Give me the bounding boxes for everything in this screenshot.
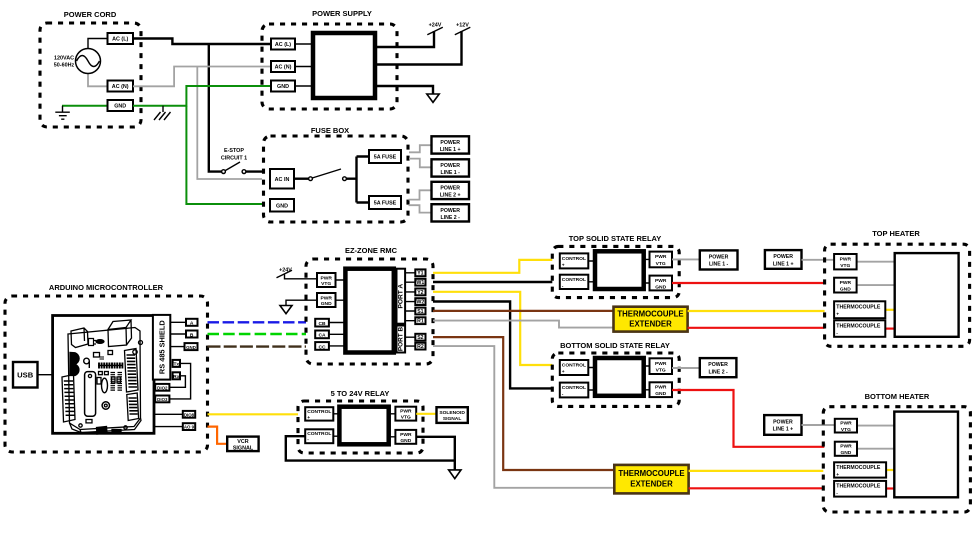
svg-text:POWER: POWER bbox=[440, 208, 460, 214]
svg-text:POWER: POWER bbox=[773, 254, 793, 260]
svg-text:GND: GND bbox=[114, 104, 126, 110]
svg-text:LINE 1 -: LINE 1 - bbox=[709, 262, 729, 268]
svg-text:VTG: VTG bbox=[401, 415, 411, 421]
svg-text:THERMOCOUPLE: THERMOCOUPLE bbox=[836, 323, 881, 329]
svg-text:R2: R2 bbox=[417, 344, 424, 350]
svg-text:GND: GND bbox=[400, 438, 411, 444]
svg-text:EXTENDER: EXTENDER bbox=[630, 479, 673, 488]
svg-text:PWR: PWR bbox=[655, 278, 667, 284]
svg-text:VCR: VCR bbox=[237, 439, 248, 445]
svg-text:THERMOCOUPLE: THERMOCOUPLE bbox=[836, 465, 881, 471]
svg-text:VTG: VTG bbox=[656, 368, 666, 374]
svg-text:GND: GND bbox=[277, 84, 289, 90]
svg-text:SOLENOID: SOLENOID bbox=[439, 410, 465, 416]
svg-text:50-60Hz: 50-60Hz bbox=[54, 63, 75, 69]
svg-text:5 TO 24V RELAY: 5 TO 24V RELAY bbox=[331, 389, 390, 398]
svg-text:S1: S1 bbox=[417, 309, 423, 315]
svg-text:AO 9: AO 9 bbox=[184, 425, 195, 430]
svg-text:VTG: VTG bbox=[841, 427, 851, 433]
svg-text:POWER CORD: POWER CORD bbox=[64, 10, 117, 19]
svg-text:AC IN: AC IN bbox=[275, 177, 290, 183]
svg-text:LINE 1 +: LINE 1 + bbox=[440, 147, 461, 153]
svg-text:PWR: PWR bbox=[840, 444, 852, 450]
svg-text:LINE 1 +: LINE 1 + bbox=[773, 261, 794, 267]
svg-text:GND: GND bbox=[321, 301, 332, 307]
svg-text:TOP SOLID STATE RELAY: TOP SOLID STATE RELAY bbox=[569, 234, 662, 243]
svg-text:W1: W1 bbox=[417, 280, 425, 286]
svg-text:CC: CC bbox=[318, 344, 326, 350]
svg-text:PWR: PWR bbox=[655, 361, 667, 367]
svg-text:THERMOCOUPLE: THERMOCOUPLE bbox=[836, 484, 881, 490]
svg-text:CONTROL: CONTROL bbox=[562, 362, 586, 368]
svg-text:LINE 1 -: LINE 1 - bbox=[441, 170, 461, 176]
svg-text:CONTROL: CONTROL bbox=[307, 431, 331, 437]
svg-text:+12V: +12V bbox=[456, 23, 469, 29]
svg-text:5A FUSE: 5A FUSE bbox=[374, 201, 397, 207]
svg-text:AC (N): AC (N) bbox=[275, 65, 292, 71]
svg-text:CB: CB bbox=[318, 321, 326, 327]
svg-text:LINE 2 -: LINE 2 - bbox=[441, 215, 461, 221]
svg-text:GND: GND bbox=[840, 450, 851, 456]
svg-text:AC (L): AC (L) bbox=[112, 37, 128, 43]
svg-text:PORT A: PORT A bbox=[398, 284, 405, 309]
svg-text:B: B bbox=[190, 332, 194, 338]
svg-text:S2: S2 bbox=[417, 335, 423, 341]
svg-text:USB: USB bbox=[17, 371, 34, 380]
svg-text:AC (L): AC (L) bbox=[275, 42, 291, 48]
svg-text:EXTENDER: EXTENDER bbox=[629, 319, 672, 328]
svg-text:CONTROL: CONTROL bbox=[562, 385, 586, 391]
svg-text:VTG: VTG bbox=[656, 261, 666, 267]
svg-text:ARDUINO MICROCONTROLLER: ARDUINO MICROCONTROLLER bbox=[49, 283, 164, 292]
svg-text:+: + bbox=[836, 473, 839, 478]
svg-text:FUSE BOX: FUSE BOX bbox=[311, 126, 349, 135]
svg-text:TOP HEATER: TOP HEATER bbox=[872, 229, 920, 238]
svg-text:THERMOCOUPLE: THERMOCOUPLE bbox=[617, 310, 683, 319]
svg-text:EZ-ZONE RMC: EZ-ZONE RMC bbox=[345, 246, 398, 255]
svg-text:RS 485 SHIELD: RS 485 SHIELD bbox=[158, 320, 167, 374]
svg-text:LINE 2 +: LINE 2 + bbox=[440, 192, 461, 198]
svg-text:POWER: POWER bbox=[709, 254, 729, 260]
svg-text:PORT B: PORT B bbox=[398, 327, 405, 352]
svg-text:5A FUSE: 5A FUSE bbox=[374, 155, 397, 161]
svg-text:Rx: Rx bbox=[173, 374, 180, 380]
svg-text:VTG: VTG bbox=[321, 281, 331, 287]
svg-text:Y2: Y2 bbox=[417, 290, 423, 296]
svg-text:DIO8: DIO8 bbox=[184, 412, 195, 417]
svg-text:SIGNAL: SIGNAL bbox=[443, 416, 461, 422]
svg-text:E-STOP: E-STOP bbox=[224, 148, 244, 154]
svg-text:GND: GND bbox=[276, 204, 288, 210]
svg-text:THERMOCOUPLE: THERMOCOUPLE bbox=[618, 469, 684, 478]
svg-text:CONTROL: CONTROL bbox=[562, 277, 586, 283]
svg-text:GND: GND bbox=[655, 284, 666, 290]
svg-text:+: + bbox=[562, 263, 565, 268]
svg-text:R1: R1 bbox=[417, 319, 424, 325]
svg-text:POWER: POWER bbox=[773, 419, 793, 425]
svg-text:DIO2: DIO2 bbox=[157, 385, 168, 390]
svg-text:POWER SUPPLY: POWER SUPPLY bbox=[312, 9, 372, 18]
svg-text:PWR: PWR bbox=[400, 409, 412, 415]
svg-text:120VAC: 120VAC bbox=[54, 56, 74, 62]
svg-text:Tx: Tx bbox=[173, 362, 179, 368]
svg-text:DIO3: DIO3 bbox=[157, 397, 168, 402]
svg-text:CIRCUIT 1: CIRCUIT 1 bbox=[221, 156, 247, 162]
svg-text:+: + bbox=[836, 312, 839, 317]
svg-text:POWER: POWER bbox=[440, 163, 460, 169]
svg-text:CONTROL: CONTROL bbox=[307, 409, 331, 415]
svg-text:LINE 2 -: LINE 2 - bbox=[708, 369, 728, 375]
svg-text:GND: GND bbox=[186, 345, 196, 350]
svg-text:BOTTOM SOLID STATE RELAY: BOTTOM SOLID STATE RELAY bbox=[560, 341, 670, 350]
svg-text:PWR: PWR bbox=[840, 280, 852, 286]
svg-text:PWR: PWR bbox=[400, 432, 412, 438]
svg-text:CONTROL: CONTROL bbox=[562, 256, 586, 262]
svg-text:PWR: PWR bbox=[840, 257, 852, 263]
svg-text:VTG: VTG bbox=[840, 263, 850, 269]
svg-text:PWR: PWR bbox=[320, 295, 332, 301]
svg-text:AC (N): AC (N) bbox=[112, 84, 129, 90]
svg-text:Y1: Y1 bbox=[417, 271, 423, 277]
svg-text:PWR: PWR bbox=[320, 275, 332, 281]
svg-text:THERMOCOUPLE: THERMOCOUPLE bbox=[836, 304, 881, 310]
svg-text:PWR: PWR bbox=[655, 254, 667, 260]
svg-text:+: + bbox=[307, 416, 310, 421]
svg-text:PWR: PWR bbox=[840, 421, 852, 427]
svg-text:LINE 1 +: LINE 1 + bbox=[773, 427, 794, 433]
svg-text:+: + bbox=[562, 370, 565, 375]
svg-text:GND: GND bbox=[840, 287, 851, 293]
svg-text:SIGNAL: SIGNAL bbox=[233, 446, 254, 452]
svg-text:+24V: +24V bbox=[429, 23, 442, 29]
svg-text:W2: W2 bbox=[417, 300, 425, 306]
svg-text:PWR: PWR bbox=[655, 385, 667, 391]
svg-text:GND: GND bbox=[655, 391, 666, 397]
svg-text:BOTTOM HEATER: BOTTOM HEATER bbox=[865, 392, 930, 401]
svg-text:POWER: POWER bbox=[440, 185, 460, 191]
svg-text:A: A bbox=[190, 321, 194, 327]
svg-text:POWER: POWER bbox=[440, 140, 460, 146]
svg-text:POWER: POWER bbox=[708, 362, 728, 368]
svg-text:CA: CA bbox=[318, 333, 326, 339]
